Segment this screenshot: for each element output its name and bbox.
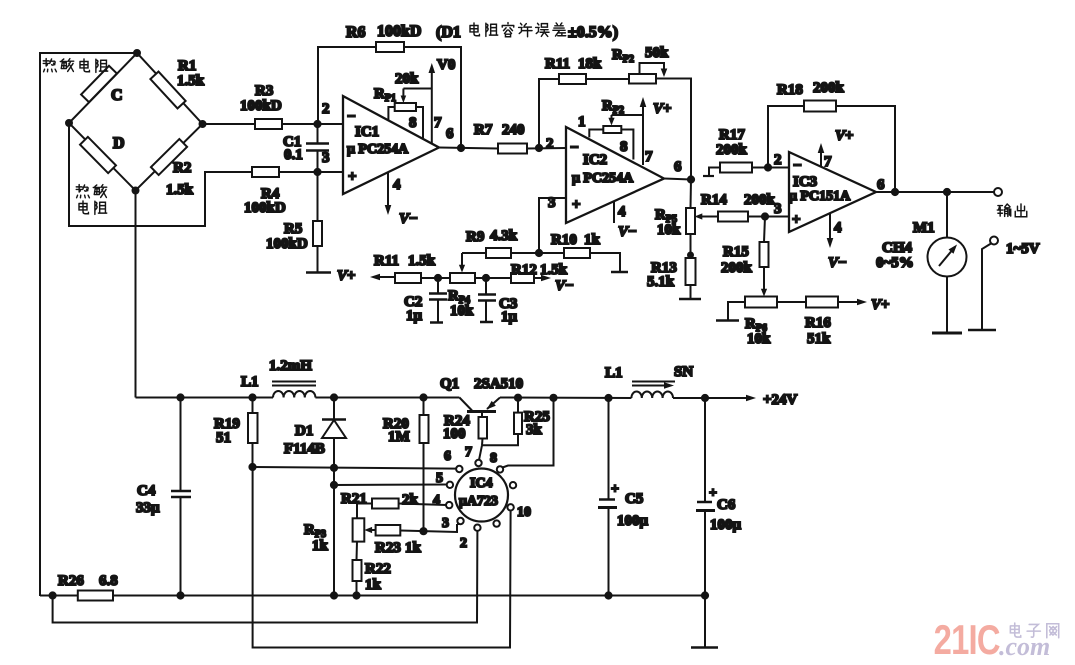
resistor R6 100kD feedback loop bbox=[318, 47, 376, 124]
node: R22 bottom junction bbox=[353, 592, 359, 598]
svg-text:+: + bbox=[611, 482, 619, 497]
V- arrow (IC3 pin4) bbox=[829, 213, 831, 243]
resistor R3 100kD bbox=[255, 119, 282, 129]
svg-text:100kD: 100kD bbox=[244, 200, 286, 216]
wire: RP4 to R12 bbox=[475, 277, 511, 279]
node: R9/R10 junction bbox=[536, 250, 542, 256]
svg-text:IC2: IC2 bbox=[583, 152, 607, 168]
svg-text:5.1k: 5.1k bbox=[647, 274, 675, 290]
svg-text:C4: C4 bbox=[137, 483, 156, 499]
svg-text:5: 5 bbox=[436, 471, 443, 486]
svg-text:IC4: IC4 bbox=[470, 476, 493, 491]
svg-text:RP2: RP2 bbox=[612, 47, 634, 65]
capacitor C4 33u bbox=[180, 398, 182, 492]
svg-text:3: 3 bbox=[774, 201, 782, 217]
svg-text:R7: R7 bbox=[474, 122, 493, 138]
svg-text:μ PC151A: μ PC151A bbox=[789, 189, 851, 204]
resistor R23 1k bbox=[376, 525, 401, 536]
svg-text:−: − bbox=[570, 140, 579, 156]
trimmer RP2 (IC2 offset) bbox=[603, 126, 621, 133]
svg-text:R14: R14 bbox=[701, 192, 727, 208]
1~5V terminal bbox=[990, 237, 998, 245]
wire: R24/R25 junction down to IC4 pin7 bbox=[479, 445, 482, 460]
node: C4 tap bbox=[177, 394, 183, 400]
trimmer RP5 10k (IC2 output divider) bbox=[690, 180, 693, 209]
svg-text:+: + bbox=[709, 486, 717, 501]
node: C5 bottom junction bbox=[605, 592, 611, 598]
node: C6 bottom junction bbox=[702, 592, 708, 598]
svg-text:8: 8 bbox=[620, 139, 628, 155]
resistor R20 1M bbox=[423, 398, 425, 416]
ground bar below C6 bbox=[691, 646, 718, 649]
resistor R11 18k / trimmer RP2 50k feedback loop bbox=[539, 79, 559, 148]
svg-text:−: − bbox=[793, 158, 802, 174]
resistor R18 200k feedback loop bbox=[768, 106, 804, 168]
capacitor C5 100u bbox=[608, 398, 610, 500]
node: D1 / pin5-line junction bbox=[331, 482, 337, 488]
V+ arrow (IC2 pin7) bbox=[642, 102, 644, 165]
resistor R5 100kD bbox=[317, 172, 319, 221]
svg-text:L1: L1 bbox=[605, 365, 623, 381]
node: R20 / R23 junction bbox=[420, 528, 426, 534]
svg-text:240: 240 bbox=[502, 122, 525, 138]
transistor Q1 2SA510 bbox=[459, 398, 472, 411]
V- arrow (IC1 pin4) bbox=[387, 172, 389, 210]
svg-text:51k: 51k bbox=[807, 331, 831, 347]
svg-text:±0.5%): ±0.5%) bbox=[568, 24, 618, 41]
trimmer RP1 20k (IC1 offset) bbox=[395, 103, 416, 111]
node: C3 junction bbox=[483, 275, 489, 281]
svg-text:−: − bbox=[347, 109, 356, 125]
regulator IC4 uA723 (round package) bbox=[455, 469, 508, 522]
resistor R10 1k bbox=[539, 252, 564, 254]
svg-text:4: 4 bbox=[834, 220, 842, 236]
svg-text:R26: R26 bbox=[58, 573, 84, 589]
svg-text:V+: V+ bbox=[871, 297, 890, 313]
resistor R26 6.8 on ground bus bbox=[40, 595, 78, 597]
wire: IC2 pin3 down to R9/R10 bbox=[539, 198, 566, 253]
svg-text:V−: V− bbox=[555, 278, 574, 294]
svg-text:18k: 18k bbox=[578, 56, 602, 72]
svg-text:L1: L1 bbox=[241, 374, 259, 390]
capacitor C2 1u bbox=[437, 278, 439, 293]
svg-text:1k: 1k bbox=[405, 540, 422, 556]
svg-text:100μ: 100μ bbox=[617, 513, 649, 529]
wire: bridge left node around to R4 and IC1 pin3 bbox=[69, 123, 343, 226]
svg-text:100kD: 100kD bbox=[266, 236, 308, 252]
svg-text:R18: R18 bbox=[777, 82, 803, 98]
svg-text:6.8: 6.8 bbox=[99, 573, 118, 589]
svg-text:3: 3 bbox=[322, 150, 330, 166]
svg-text:.com: .com bbox=[999, 632, 1050, 661]
svg-text:R3: R3 bbox=[255, 83, 273, 99]
svg-text:1~5V: 1~5V bbox=[1006, 241, 1040, 257]
op-amp IC3 uPC151A bbox=[789, 152, 876, 232]
svg-text:200k: 200k bbox=[716, 142, 748, 158]
wire: IC3 output to output terminal bbox=[876, 191, 994, 193]
wire: +24V rail left segment bbox=[136, 397, 274, 399]
wire: IC4 pin8 to +24V rail bbox=[503, 398, 554, 468]
pin 4 stub (IC2) bbox=[613, 201, 615, 223]
svg-text:1μ: 1μ bbox=[406, 308, 423, 324]
svg-text:R2: R2 bbox=[173, 160, 191, 176]
svg-text:4.3k: 4.3k bbox=[490, 228, 518, 244]
svg-text:2: 2 bbox=[460, 536, 467, 551]
node: IC3 pin3 junction bbox=[762, 213, 768, 219]
svg-text:R23: R23 bbox=[375, 540, 401, 556]
node: C5 tap bbox=[605, 395, 611, 401]
resistor R19 51 bbox=[252, 398, 254, 414]
svg-text:CH4: CH4 bbox=[882, 240, 913, 256]
node: C2 junction bbox=[435, 275, 441, 281]
wire: IC2 output node bbox=[664, 179, 691, 180]
svg-text:200k: 200k bbox=[813, 80, 845, 96]
resistor R2 1.5k (bridge bottom-right arm) bbox=[151, 139, 187, 175]
svg-text:51: 51 bbox=[216, 430, 231, 446]
svg-text:M1: M1 bbox=[913, 220, 935, 236]
wire: +24V rail right segment with arrow bbox=[673, 397, 750, 399]
svg-text:+: + bbox=[792, 212, 801, 228]
svg-text:Q1: Q1 bbox=[440, 376, 459, 392]
V0 supply arrow (IC1 pin7) bbox=[431, 68, 433, 143]
svg-text:3k: 3k bbox=[526, 422, 543, 438]
wire: IC4 pin10 to bottom bus3 bbox=[253, 467, 511, 648]
terminal bar below R10 bbox=[611, 271, 628, 274]
svg-text:RP2: RP2 bbox=[602, 98, 624, 116]
svg-text:R16: R16 bbox=[805, 315, 831, 331]
wire: left outer rail from bridge top down to bottom bus bbox=[40, 53, 137, 596]
svg-text:V+: V+ bbox=[653, 101, 672, 117]
svg-text:V−: V− bbox=[618, 224, 637, 240]
node: L1 / R19 tap bbox=[249, 394, 255, 400]
resistor R1 1.5k (bridge top-right arm) bbox=[150, 72, 185, 109]
wire: IC4 pin2 to bottom bus2 bbox=[53, 531, 478, 623]
svg-text:D: D bbox=[113, 135, 125, 152]
svg-text:6: 6 bbox=[444, 449, 451, 464]
svg-text:2: 2 bbox=[774, 152, 782, 168]
svg-text:10k: 10k bbox=[450, 303, 474, 319]
svg-text:1μ: 1μ bbox=[501, 309, 518, 325]
svg-text:C5: C5 bbox=[625, 491, 643, 507]
svg-text:4: 4 bbox=[618, 204, 626, 220]
svg-text:μA723: μA723 bbox=[459, 494, 498, 509]
svg-text:100kD: 100kD bbox=[240, 98, 282, 114]
node: C4 bottom junction bbox=[177, 592, 183, 598]
node: D1 / R19-line junction bbox=[331, 465, 337, 471]
node: bus2 riser junction bbox=[50, 592, 56, 598]
svg-text:V−: V− bbox=[828, 255, 847, 271]
svg-text:6: 6 bbox=[877, 177, 885, 193]
svg-text:+24V: +24V bbox=[763, 392, 798, 408]
thermistor D (bridge bottom-left arm) bbox=[80, 137, 116, 173]
svg-text:1k: 1k bbox=[312, 538, 329, 554]
capacitor C3 1u bbox=[485, 278, 487, 294]
node: IC1 output / R6 junction bbox=[458, 145, 464, 151]
node: IC2 pin2 / R11 junction bbox=[536, 145, 542, 151]
svg-text:RP1: RP1 bbox=[374, 86, 396, 104]
svg-text:IC3: IC3 bbox=[793, 174, 817, 190]
watermark dianziwang bbox=[1010, 623, 1058, 638]
svg-text:8: 8 bbox=[490, 451, 497, 466]
resistor R21 2k bbox=[399, 504, 447, 506]
capacitor C6 100u bbox=[704, 398, 706, 502]
resistor R15 200k bbox=[764, 217, 765, 243]
svg-text:F114B: F114B bbox=[284, 441, 325, 457]
resistor R12 1.5k bbox=[511, 273, 534, 283]
trimmer RP6 10k bbox=[761, 289, 767, 297]
resistor R7 240 bbox=[498, 144, 527, 154]
svg-text:100: 100 bbox=[443, 426, 466, 442]
svg-text:2SA510: 2SA510 bbox=[474, 376, 523, 392]
svg-text:6: 6 bbox=[446, 126, 454, 142]
svg-text:R6: R6 bbox=[346, 24, 366, 41]
wire: IC1 output to IC2 pin2 bbox=[439, 148, 498, 149]
node: meter tap junction bbox=[944, 189, 950, 195]
power terminal V+ below R5 bbox=[306, 271, 331, 274]
svg-text:R12: R12 bbox=[511, 262, 537, 278]
resistor R13 5.1k bbox=[690, 234, 692, 258]
op-amp IC2 uPC254A bbox=[566, 127, 664, 223]
svg-text:C: C bbox=[111, 87, 123, 104]
wire: to IC4 pin5 bbox=[334, 484, 447, 487]
resistor R9 4.3k bbox=[462, 252, 486, 254]
svg-text:1.5k: 1.5k bbox=[177, 73, 205, 89]
label: thermistor text top-left bbox=[43, 59, 107, 73]
trimmer RP4 10k bbox=[450, 273, 475, 283]
svg-text:V+: V+ bbox=[337, 268, 356, 284]
svg-text:2: 2 bbox=[322, 101, 330, 117]
node: R25 tap bbox=[515, 395, 521, 401]
svg-text:100kD: 100kD bbox=[377, 23, 421, 40]
node: R20 tap bbox=[420, 394, 426, 400]
svg-text:0~5%: 0~5% bbox=[876, 255, 914, 271]
resistor R24 100 bbox=[481, 412, 483, 418]
node: C6 tap bbox=[702, 395, 708, 401]
wire: R19 bottom to IC4 pin6 bbox=[253, 467, 457, 469]
node: IC3 pin2 / R18 junction bbox=[765, 164, 771, 170]
label: output (shu chu) bbox=[997, 204, 1026, 217]
capacitor C1 0.1 bbox=[317, 124, 319, 144]
wire: bridge right node to IC1 pin2 bbox=[203, 123, 344, 125]
svg-text:1.5k: 1.5k bbox=[408, 253, 436, 269]
wire: bridge bottom node down to +24V rail bbox=[135, 191, 137, 398]
svg-text:7: 7 bbox=[645, 149, 653, 165]
svg-text:μ PC254A: μ PC254A bbox=[347, 142, 409, 157]
node: bridge top bbox=[134, 50, 140, 56]
svg-text:C6: C6 bbox=[717, 497, 736, 513]
svg-text:200k: 200k bbox=[721, 260, 753, 276]
V+ arrow feeding R11 1.5k rail bbox=[370, 274, 380, 281]
svg-text:IC1: IC1 bbox=[355, 124, 379, 140]
svg-text:200k: 200k bbox=[744, 192, 776, 208]
svg-text:R9: R9 bbox=[466, 229, 484, 245]
svg-text:2k: 2k bbox=[402, 492, 419, 508]
svg-text:10k: 10k bbox=[657, 222, 681, 238]
svg-text:V+: V+ bbox=[835, 128, 854, 144]
svg-text:4: 4 bbox=[393, 177, 401, 193]
resistor R11 1.5k bbox=[395, 273, 421, 283]
thermistor C (bridge top-left arm) bbox=[81, 66, 117, 102]
svg-text:6: 6 bbox=[674, 159, 682, 175]
svg-text:D1: D1 bbox=[295, 423, 313, 439]
svg-text:2: 2 bbox=[546, 136, 554, 152]
resistor R4 100kD bbox=[252, 167, 279, 177]
svg-text:+: + bbox=[572, 197, 581, 213]
output terminal circle bbox=[994, 188, 1002, 196]
node: IC4 pin8 line tap bbox=[550, 395, 556, 401]
svg-text:SN: SN bbox=[674, 364, 693, 380]
svg-text:1.5k: 1.5k bbox=[166, 182, 194, 198]
inductor L1 1.2mH bbox=[273, 391, 315, 398]
node: R4/C1/R5 junction bbox=[314, 169, 320, 175]
svg-text:V−: V− bbox=[399, 211, 418, 227]
svg-text:100μ: 100μ bbox=[710, 517, 742, 533]
svg-text:8: 8 bbox=[409, 115, 417, 131]
node: R3/C1/R6 junction bbox=[314, 121, 320, 127]
resistor R17 200k with stub bbox=[709, 168, 720, 177]
node: D1 tap bbox=[331, 394, 337, 400]
svg-text:20k: 20k bbox=[395, 71, 419, 87]
node: bridge right bbox=[200, 121, 206, 127]
V+ arrow (IC3 pin7) bbox=[820, 148, 822, 167]
node: D1 line bottom junction bbox=[331, 592, 337, 598]
svg-text:R22: R22 bbox=[365, 561, 391, 577]
svg-text:1: 1 bbox=[578, 114, 586, 130]
svg-text:R10: R10 bbox=[551, 232, 577, 248]
svg-text:R5: R5 bbox=[284, 221, 302, 237]
label: thermistor text bottom-left bbox=[76, 185, 106, 215]
svg-text:7: 7 bbox=[434, 115, 442, 131]
wire: bridge diamond edges bbox=[69, 53, 203, 191]
svg-text:1k: 1k bbox=[365, 577, 382, 593]
svg-text:10k: 10k bbox=[747, 331, 771, 347]
resistor R14 200k bbox=[718, 212, 748, 222]
svg-text:(D1: (D1 bbox=[436, 24, 461, 41]
svg-text:μ PC254A: μ PC254A bbox=[572, 171, 634, 186]
wire: +24V rail mid segment bbox=[500, 397, 631, 400]
svg-text:21IC: 21IC bbox=[934, 616, 1001, 663]
svg-text:1M: 1M bbox=[388, 429, 410, 445]
op-amp IC1 uPC254A bbox=[343, 96, 439, 194]
inductor L1 SN bbox=[631, 391, 673, 398]
svg-text:7: 7 bbox=[465, 445, 472, 460]
node: R19 bottom junction bbox=[249, 464, 255, 470]
svg-text:0.1: 0.1 bbox=[284, 147, 303, 163]
svg-text:50k: 50k bbox=[645, 45, 669, 61]
node: R18/output junction bbox=[892, 189, 898, 195]
svg-text:R11: R11 bbox=[545, 56, 570, 72]
svg-text:R21: R21 bbox=[341, 491, 367, 507]
svg-text:3: 3 bbox=[442, 516, 449, 531]
svg-text:V0: V0 bbox=[437, 57, 455, 73]
svg-text:R15: R15 bbox=[723, 244, 749, 260]
node: bridge bottom bbox=[133, 188, 139, 194]
meter M1 CH4 0~5% bbox=[946, 192, 948, 238]
svg-text:R11: R11 bbox=[374, 253, 399, 269]
svg-text:33μ: 33μ bbox=[136, 500, 160, 516]
svg-text:R1: R1 bbox=[178, 58, 196, 74]
resistor R22 1k bbox=[353, 560, 362, 581]
svg-text:7: 7 bbox=[824, 154, 832, 170]
svg-text:1k: 1k bbox=[584, 232, 601, 248]
zener diode D1 F114B bbox=[333, 398, 335, 420]
resistor R25 3k bbox=[517, 398, 519, 413]
svg-text:1.5k: 1.5k bbox=[540, 262, 568, 278]
node: bridge left bbox=[66, 120, 72, 126]
svg-text:1.2mH: 1.2mH bbox=[269, 358, 312, 374]
resistor R16 51k bbox=[777, 301, 806, 303]
svg-text:R17: R17 bbox=[719, 127, 745, 143]
trimmer RP3 1k bbox=[353, 518, 365, 541]
svg-text:+: + bbox=[348, 169, 357, 185]
svg-text:10: 10 bbox=[517, 505, 531, 520]
node: IC2 output junction bbox=[688, 176, 694, 182]
